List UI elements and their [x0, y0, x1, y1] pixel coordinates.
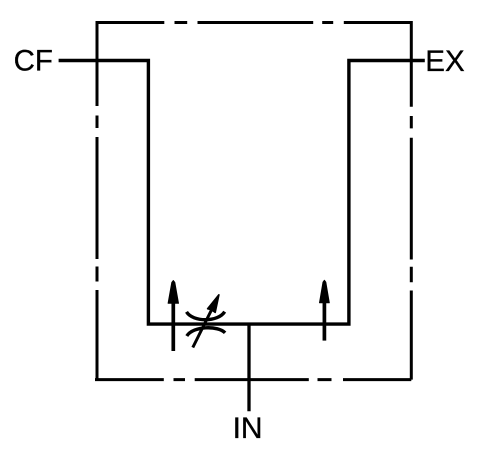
variable restrictor lower arc: [187, 328, 225, 336]
flow arrow right (head): [320, 280, 330, 303]
valve envelope phantom box: left edge: [96, 21, 99, 380]
variable restrictor adjustment arrow shaft: [193, 309, 212, 348]
variable restrictor adjustment arrow head: [208, 295, 219, 313]
flow arrow right (shaft): [323, 297, 327, 341]
valve envelope phantom box: top edge: [96, 21, 412, 24]
valve envelope phantom box: right edge: [410, 21, 413, 380]
flow arrow left (shaft): [171, 298, 175, 351]
svg-text:CF: CF: [14, 45, 53, 78]
svg-text:IN: IN: [233, 412, 263, 445]
variable restrictor upper arc: [187, 312, 225, 320]
valve envelope phantom box: bottom edge: [95, 378, 411, 381]
flow arrow left (head): [168, 281, 178, 304]
wire: CF line, U channel, EX line (solid flow path): [59, 61, 425, 325]
wire: IN vertical line: [247, 324, 250, 411]
svg-text:EX: EX: [425, 45, 465, 78]
